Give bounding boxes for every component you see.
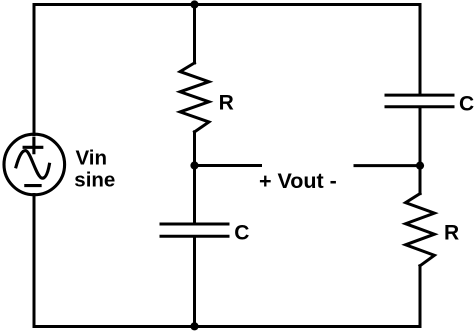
wire right branch top (rail to C) — [419, 5, 422, 94]
wire middle branch (node to C) — [193, 166, 196, 223]
node Vout- junction dot — [416, 162, 424, 170]
label Vin sine — [74, 146, 115, 191]
label R1 value R — [219, 91, 234, 114]
wire bottom rail — [34, 325, 420, 328]
label C2 value C — [459, 92, 474, 115]
label + Vout - — [259, 169, 337, 193]
wire right branch (node to R) — [419, 166, 422, 194]
resistor R1 (middle branch) — [180, 63, 209, 132]
label C1 value C — [234, 221, 249, 244]
svg-text:+ Vout -: + Vout - — [259, 169, 337, 193]
resistor R2 (right branch) — [406, 194, 435, 266]
capacitor C2 (right branch) — [386, 95, 453, 107]
svg-text:C: C — [459, 92, 474, 115]
svg-text:sine: sine — [74, 169, 115, 192]
node Vout+ junction dot — [190, 161, 198, 169]
wire right branch (C to node Vout-) — [419, 108, 422, 166]
svg-text:R: R — [219, 91, 234, 114]
capacitor C1 (middle branch) — [161, 224, 228, 236]
wire Vout+ stub — [195, 164, 261, 167]
wire middle branch (R to node Vout+) — [193, 132, 196, 166]
wire middle branch bottom (C to rail) — [193, 238, 196, 327]
source V1 Vin sine — [4, 134, 65, 195]
node bottom junction dot — [190, 322, 198, 330]
wire middle branch top (rail to R) — [193, 5, 196, 63]
wire Vout- stub — [355, 164, 420, 167]
svg-text:C: C — [234, 221, 249, 244]
wire left branch upper (source top to rail) — [33, 5, 36, 135]
node top junction dot — [190, 0, 198, 8]
wire left branch lower (source bottom to rail) — [33, 195, 36, 327]
wire top rail — [34, 3, 420, 6]
wire right branch bottom (R to rail) — [419, 266, 422, 327]
label R2 value R — [444, 222, 459, 245]
svg-text:R: R — [444, 222, 459, 245]
svg-text:Vin: Vin — [76, 146, 108, 169]
